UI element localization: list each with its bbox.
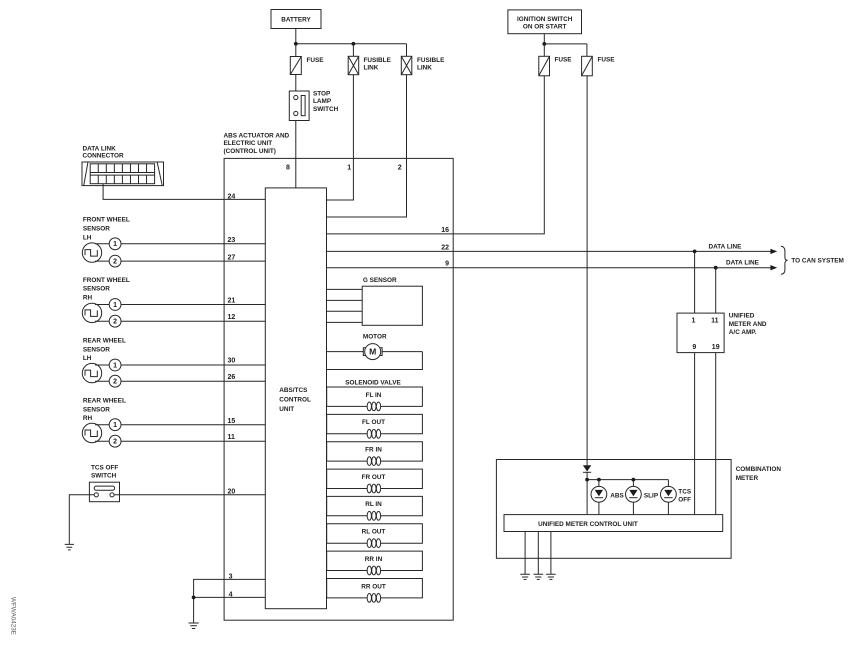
svg-text:LINK: LINK: [417, 65, 432, 72]
svg-text:16: 16: [441, 227, 449, 234]
fuse ignition 1: [539, 56, 572, 76]
svg-text:DATA LINE: DATA LINE: [709, 244, 743, 251]
svg-text:9: 9: [445, 261, 449, 268]
svg-text:27: 27: [228, 254, 236, 261]
g sensor G1: [362, 286, 422, 325]
wire pin 26: [95, 380, 265, 382]
wire ignition fuse 1 to pin 16: [327, 76, 545, 234]
junction battery bus left: [294, 42, 298, 46]
svg-text:8: 8: [286, 164, 290, 171]
svg-text:FUSIBLE: FUSIBLE: [417, 57, 445, 64]
wire drop to fusible link 2: [406, 44, 408, 57]
svg-text:RH: RH: [83, 415, 93, 422]
svg-text:(CONTROL UNIT): (CONTROL UNIT): [224, 148, 276, 155]
battery B1: [271, 10, 321, 29]
wire pin 21: [95, 304, 265, 306]
pin circle 2 FW LH: [109, 255, 121, 267]
solenoid valve FL IN L1: [327, 387, 423, 411]
svg-text:METER: METER: [736, 475, 759, 482]
svg-text:9: 9: [692, 344, 696, 351]
svg-text:FRONT WHEEL: FRONT WHEEL: [83, 277, 130, 284]
wire drop to fusible link 1: [352, 44, 354, 57]
warning lamp ABS: [591, 486, 625, 514]
svg-text:MOTOR: MOTOR: [363, 334, 387, 341]
svg-text:ELECTRIC UNIT: ELECTRIC UNIT: [224, 140, 273, 147]
svg-text:LH: LH: [83, 355, 92, 362]
svg-text:1: 1: [113, 302, 117, 309]
wire unified meter pin 19 to meter control: [715, 353, 717, 515]
tcs off switch S2: [89, 482, 119, 502]
junction lamp bus 2: [597, 478, 601, 482]
pin circle 1 RW RH: [109, 419, 121, 431]
wire pin 20: [114, 494, 265, 496]
solenoid valve FR OUT L4: [327, 469, 423, 493]
svg-text:RR IN: RR IN: [365, 556, 383, 563]
svg-text:ON OR START: ON OR START: [523, 24, 567, 31]
svg-text:3: 3: [229, 574, 233, 581]
svg-text:METER AND: METER AND: [729, 321, 767, 328]
svg-text:A/C AMP.: A/C AMP.: [729, 329, 757, 336]
svg-text:DATA LINE: DATA LINE: [726, 260, 760, 267]
fuse battery: [290, 57, 324, 75]
combination meter box: [496, 460, 731, 559]
svg-text:FR OUT: FR OUT: [362, 474, 386, 481]
wire ignition fuse 2 to combination meter: [586, 76, 588, 465]
svg-text:24: 24: [228, 194, 236, 201]
ground abs unit: [189, 623, 199, 629]
label rear wheel sensor RH: [83, 398, 126, 423]
wire motor top: [327, 351, 423, 353]
svg-text:21: 21: [228, 297, 236, 304]
svg-text:23: 23: [228, 237, 236, 244]
wire g sensor 1: [327, 288, 363, 290]
arrow data line upper: [770, 249, 777, 254]
svg-text:1: 1: [113, 362, 117, 369]
pin circle 2 RW RH: [109, 435, 121, 447]
label abs actuator unit: [224, 132, 290, 155]
label rear wheel sensor LH: [83, 338, 126, 363]
solenoid valve RR IN L7: [327, 551, 423, 575]
svg-text:RL OUT: RL OUT: [362, 529, 386, 536]
ground tcs off switch: [65, 544, 74, 550]
svg-text:26: 26: [228, 374, 236, 381]
svg-text:19: 19: [712, 344, 720, 351]
rear wheel sensor RH: [82, 423, 101, 442]
svg-text:REAR WHEEL: REAR WHEEL: [83, 338, 126, 345]
svg-text:RR OUT: RR OUT: [361, 583, 386, 590]
svg-text:22: 22: [441, 245, 449, 252]
svg-text:2: 2: [398, 164, 402, 171]
stop lamp switch S1: [289, 90, 338, 120]
fusible link 1: [348, 56, 391, 74]
pin circle 2 RW LH: [109, 375, 121, 387]
wire g sensor 4: [327, 321, 363, 323]
wire drop to ignition fuse 2: [586, 44, 588, 56]
warning lamp SLIP: [626, 486, 659, 514]
fuse ignition 2: [582, 56, 616, 76]
diode D1: [583, 465, 591, 472]
wire meter ground 3: [550, 532, 552, 575]
ground meter 1: [520, 574, 530, 579]
wire battery down: [295, 29, 297, 44]
pin circle 1 FW LH: [109, 238, 121, 250]
svg-text:FL OUT: FL OUT: [362, 419, 385, 426]
svg-text:FUSE: FUSE: [555, 57, 573, 64]
svg-text:UNIT: UNIT: [279, 406, 294, 413]
wire pin 3: [194, 579, 266, 623]
wire fusible link 2 to pin 2: [327, 75, 407, 217]
svg-text:FUSE: FUSE: [307, 57, 325, 64]
svg-text:M: M: [369, 347, 376, 357]
svg-text:SOLENOID VALVE: SOLENOID VALVE: [345, 379, 401, 386]
label front wheel sensor LH: [83, 217, 130, 242]
junction data line upper: [693, 250, 697, 254]
svg-text:FUSE: FUSE: [598, 57, 616, 64]
wire drop tcs off lamp: [667, 480, 669, 487]
wire drop slip lamp: [632, 480, 634, 487]
wire motor loop: [327, 352, 423, 370]
svg-text:COMBINATION: COMBINATION: [736, 466, 782, 473]
pin circle 1 RW LH: [109, 359, 121, 371]
wire lamp bus: [587, 479, 668, 481]
svg-text:UNIFIED METER CONTROL UNIT: UNIFIED METER CONTROL UNIT: [538, 521, 638, 528]
label tcs off switch: [91, 465, 118, 480]
svg-text:OFF: OFF: [678, 496, 691, 503]
wire drop abs lamp: [598, 480, 600, 487]
front wheel sensor LH: [82, 243, 101, 262]
junction lamp bus 3: [632, 478, 636, 482]
wire pin 4: [194, 596, 266, 598]
svg-text:20: 20: [228, 489, 236, 496]
wire pin 22 data line: [327, 250, 771, 252]
wire tcs off switch to ground: [69, 495, 94, 545]
svg-text:SENSOR: SENSOR: [83, 406, 110, 413]
svg-text:REAR WHEEL: REAR WHEEL: [83, 398, 126, 405]
wire pin 15: [95, 424, 265, 426]
wire fuse to stop lamp switch: [295, 75, 297, 92]
wire fusible link 1 to pin 1: [327, 75, 354, 200]
svg-text:2: 2: [113, 379, 117, 386]
svg-text:FL IN: FL IN: [366, 392, 382, 399]
svg-text:11: 11: [711, 318, 719, 325]
wire ignition down: [543, 34, 545, 44]
junction ignition bus: [542, 42, 546, 46]
label front wheel sensor RH: [83, 277, 130, 302]
label data link connector: [83, 146, 124, 160]
ground meter 3: [546, 574, 556, 579]
label unified meter and a/c amp: [729, 313, 767, 336]
ground meter 2: [534, 574, 544, 579]
svg-text:2: 2: [113, 439, 117, 446]
junction pins 3/4 ground: [192, 596, 196, 600]
solenoid valve FL OUT L2: [327, 414, 423, 438]
wire pin 27: [95, 260, 265, 262]
svg-text:CONNECTOR: CONNECTOR: [83, 153, 124, 160]
svg-text:ABS ACTUATOR AND: ABS ACTUATOR AND: [224, 132, 290, 139]
svg-text:2: 2: [113, 319, 117, 326]
svg-text:TCS OFF: TCS OFF: [91, 465, 118, 472]
solenoid valve RR OUT L8: [327, 579, 423, 603]
svg-text:SENSOR: SENSOR: [83, 226, 110, 233]
wire drop to ignition fuse 1: [543, 44, 545, 56]
svg-text:4: 4: [229, 591, 233, 598]
svg-text:FR IN: FR IN: [365, 447, 382, 454]
wire diode to meter control: [586, 472, 588, 514]
unified meter control unit U3: [504, 515, 723, 532]
svg-text:SLIP: SLIP: [644, 492, 659, 499]
wire g sensor 3: [327, 310, 363, 312]
solenoid valve FR IN L3: [327, 442, 423, 466]
svg-text:UNIFIED: UNIFIED: [729, 313, 755, 320]
rear wheel sensor LH: [82, 363, 101, 382]
svg-text:SENSOR: SENSOR: [83, 286, 110, 293]
unified meter and a/c amp U2: [677, 313, 724, 353]
svg-text:2: 2: [113, 258, 117, 265]
svg-text:1: 1: [347, 164, 351, 171]
junction battery bus mid: [352, 42, 356, 46]
solenoid valve RL IN L5: [327, 496, 423, 520]
wire stop lamp switch to pin 8: [295, 121, 297, 188]
wire data link connector to pin 24: [103, 184, 265, 200]
warning lamp TCS OFF: [661, 486, 692, 514]
junction lamp bus 1: [585, 478, 589, 482]
brace to can system: [781, 246, 788, 274]
wire g sensor 2: [327, 299, 363, 301]
wire unified meter pin 9 to meter control: [694, 353, 696, 515]
svg-text:30: 30: [228, 357, 236, 364]
pin circle 1 FW RH: [109, 299, 121, 311]
ignition switch SW: [508, 10, 582, 34]
wire meter ground 1: [524, 532, 526, 575]
svg-text:1: 1: [113, 422, 117, 429]
wire pin 11: [95, 440, 265, 442]
svg-text:WFWA0423E: WFWA0423E: [10, 597, 17, 635]
svg-text:SWITCH: SWITCH: [313, 106, 339, 113]
box abs actuator outer: [224, 158, 453, 620]
svg-text:11: 11: [228, 434, 236, 441]
motor M1: [363, 344, 382, 360]
wire pin 12: [95, 320, 265, 322]
wire drop to fuse: [295, 44, 297, 57]
wire pin 9 data line: [327, 267, 771, 269]
wire battery bus: [296, 43, 407, 45]
wire ignition bus: [544, 43, 587, 45]
svg-text:DATA LINK: DATA LINK: [83, 146, 117, 153]
svg-text:IGNITION SWITCH: IGNITION SWITCH: [517, 16, 573, 23]
pin circle 2 FW RH: [109, 315, 121, 327]
svg-text:LAMP: LAMP: [313, 98, 332, 105]
label combination meter: [736, 466, 782, 482]
svg-text:ABS/TCS: ABS/TCS: [279, 387, 308, 394]
svg-text:SWITCH: SWITCH: [91, 473, 117, 480]
svg-text:ABS: ABS: [610, 492, 624, 499]
svg-text:BATTERY: BATTERY: [281, 17, 311, 24]
arrow data line lower: [770, 265, 777, 270]
wire pin 30: [95, 364, 265, 366]
svg-text:RH: RH: [83, 295, 93, 302]
svg-text:TCS: TCS: [678, 488, 692, 495]
wire meter ground 2: [537, 532, 539, 575]
op-amp U1 abs/tcs control unit box: [265, 188, 326, 609]
svg-text:FUSIBLE: FUSIBLE: [364, 57, 392, 64]
front wheel sensor RH: [82, 303, 101, 322]
data link connector J1: [82, 162, 164, 186]
svg-text:SENSOR: SENSOR: [83, 346, 110, 353]
svg-text:CONTROL: CONTROL: [279, 397, 311, 404]
junction data line lower: [714, 266, 718, 270]
wire data line to unified meter pin 11: [715, 268, 717, 313]
svg-text:LH: LH: [83, 234, 92, 241]
svg-text:FRONT WHEEL: FRONT WHEEL: [83, 217, 130, 224]
svg-text:TO CAN SYSTEM: TO CAN SYSTEM: [791, 257, 843, 264]
svg-text:15: 15: [228, 418, 236, 425]
svg-text:1: 1: [692, 318, 696, 325]
fusible link 2: [401, 56, 445, 74]
solenoid valve RL OUT L6: [327, 524, 423, 548]
svg-text:1: 1: [113, 241, 117, 248]
wire data line to unified meter pin 1: [694, 251, 696, 313]
svg-text:G SENSOR: G SENSOR: [363, 277, 397, 284]
svg-text:12: 12: [228, 314, 236, 321]
svg-text:RL IN: RL IN: [365, 501, 382, 508]
wire pin 23: [95, 243, 265, 245]
svg-text:LINK: LINK: [364, 65, 379, 72]
svg-text:STOP: STOP: [313, 90, 331, 97]
